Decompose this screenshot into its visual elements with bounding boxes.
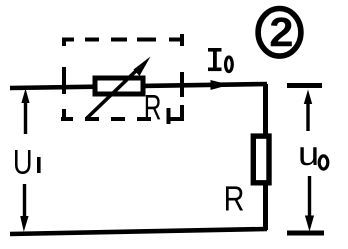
node bar top right (u0 reference) [287, 83, 322, 88]
dashed box around R1 [61, 34, 184, 121]
resistor R1 (variable, in dashed box) [95, 78, 143, 94]
label u0 [300, 147, 327, 169]
label R1 [146, 95, 171, 124]
wire top horizontal [10, 84, 267, 88]
voltage arrow u0 (up head) [304, 90, 312, 132]
label I0 [208, 48, 232, 72]
figure number 2 [271, 17, 292, 46]
node bar bottom right (u0 reference) [287, 231, 324, 236]
current arrowhead I0 on wire [211, 80, 230, 90]
wire right vertical [263, 84, 268, 230]
voltage arrow U1 (left, down head) [20, 184, 28, 232]
label U1 [15, 150, 41, 174]
arrow through R1 (adjustment diagonal) [87, 57, 151, 119]
figure number circle [258, 9, 301, 57]
voltage arrow U1 (left, up head) [21, 89, 29, 135]
label R [226, 186, 243, 210]
wire bottom horizontal [10, 229, 267, 234]
resistor R [253, 136, 269, 183]
voltage arrow u0 (down head) [305, 176, 314, 232]
